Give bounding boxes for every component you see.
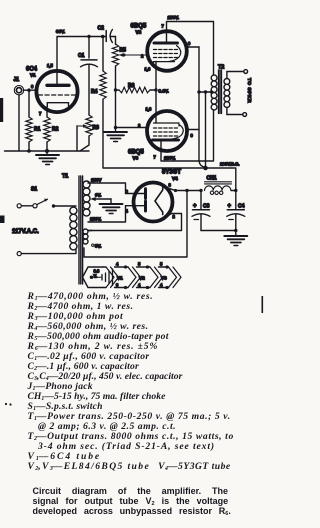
svg-text:2: 2	[141, 54, 144, 59]
node screen/CT junction	[197, 90, 200, 93]
terminal AC bottom	[17, 252, 21, 256]
scan artifact dots	[5, 403, 7, 405]
ground (filter)	[224, 236, 247, 246]
node R4 tap	[101, 35, 105, 39]
wire T1 HV bottom to V4 pin4	[88, 206, 126, 222]
wire J1 to V1 grid	[24, 89, 38, 91]
svg-text:C1: C1	[78, 53, 85, 59]
svg-text:V1: V1	[30, 73, 36, 78]
wire V4 pin2 to 5V winding	[88, 214, 182, 231]
heater chevron 6.3|V1	[106, 267, 119, 288]
switch S1	[17, 187, 55, 208]
svg-text:V.: V.	[94, 274, 98, 279]
heater bus top	[103, 266, 169, 268]
tube V1 6C4	[26, 63, 78, 116]
wire B+ riser	[205, 92, 207, 168]
node CH1 input / C3	[199, 189, 202, 192]
svg-text:V4: V4	[172, 176, 178, 181]
tube V4 5Y3GT	[126, 170, 182, 222]
wire cathode bus V2-V3	[155, 62, 157, 124]
transformer T1	[62, 174, 90, 285]
scan artifact right line	[262, 296, 264, 313]
node R1 ground	[27, 149, 31, 153]
node grid junction pin 6	[27, 88, 31, 92]
wire V3 plate to T2	[161, 110, 214, 161]
svg-text:117V.A.C.: 117V.A.C.	[12, 229, 39, 235]
jack J1	[14, 77, 24, 95]
wire V1 plate to C2 (30V line)	[57, 37, 106, 85]
tube V2 6BQ5	[131, 24, 192, 72]
wire V4 pin8 to B+	[167, 188, 201, 191]
svg-text:9: 9	[188, 41, 191, 46]
svg-text:250V.: 250V.	[164, 156, 176, 161]
svg-text:TO SPKR: TO SPKR	[246, 78, 252, 103]
node cathode bus 9.8V	[154, 88, 157, 91]
svg-text:250V.: 250V.	[168, 15, 180, 20]
resistor R6	[116, 83, 157, 93]
svg-text:T1: T1	[62, 174, 68, 180]
svg-text:4: 4	[116, 262, 119, 267]
tube V3 6BQ5	[128, 107, 194, 161]
node R2 ground	[45, 149, 49, 153]
svg-text:4: 4	[138, 283, 141, 288]
node CH1 output / C4	[234, 189, 237, 192]
svg-text:J1: J1	[14, 77, 20, 83]
svg-text:4: 4	[160, 283, 163, 288]
svg-text:R3: R3	[93, 125, 100, 131]
wire R4 to B+ node	[103, 99, 206, 168]
svg-text:5: 5	[138, 262, 141, 267]
capacitor C4	[227, 204, 245, 231]
resistor R2	[44, 107, 59, 152]
potentiometer R3	[77, 115, 99, 151]
potentiometer R5	[112, 44, 147, 128]
heater bus box 6.3V cell	[83, 267, 113, 288]
wire J1 shell to ground bus	[18, 95, 20, 151]
svg-text:7: 7	[162, 24, 165, 29]
resistor R4	[91, 37, 106, 100]
svg-text:C4: C4	[238, 204, 245, 210]
svg-text:0V.: 0V.	[95, 193, 101, 198]
svg-text:1,3: 1,3	[146, 107, 152, 112]
ground (R5 bottom)	[104, 132, 127, 142]
wire AC bottom to T1 primary	[21, 250, 76, 254]
node R6 left	[114, 88, 117, 91]
svg-text:8: 8	[169, 183, 172, 188]
wire B+ to CH1 output	[206, 168, 236, 210]
wire V2 screen pin9	[186, 46, 199, 48]
ground (T1 center tap)	[100, 204, 123, 214]
wire V3 grid	[116, 127, 148, 129]
wire V2 plate to T2	[167, 22, 214, 76]
wire 5V return	[84, 191, 187, 258]
svg-text:1,3: 1,3	[145, 67, 151, 72]
wire 5V winding top	[88, 230, 92, 232]
wire T1 center tap	[95, 198, 111, 200]
svg-text:6: 6	[31, 84, 34, 89]
ground bus	[5, 150, 90, 152]
svg-text:9: 9	[191, 133, 194, 138]
svg-text:R5: R5	[120, 48, 127, 54]
svg-text:2: 2	[173, 214, 176, 219]
capacitor C3	[192, 191, 210, 231]
svg-text:250V.: 250V.	[90, 217, 101, 222]
wire T1 HV top to V4 pin6	[88, 183, 126, 194]
svg-text:V2: V2	[139, 276, 145, 281]
svg-text:+: +	[228, 204, 232, 210]
node C4 ground	[234, 229, 237, 232]
resistor R1	[26, 90, 41, 151]
svg-text:C3: C3	[203, 204, 210, 210]
heater bus bottom	[103, 287, 169, 289]
scan artifact left bar	[0, 98, 3, 122]
svg-text:R1: R1	[34, 127, 41, 133]
wire V3 screen pin9	[187, 129, 200, 131]
svg-text:V1: V1	[117, 276, 123, 281]
node V3 grid tap	[114, 126, 117, 129]
heater chevron V3 end	[169, 267, 182, 288]
wire S1 to T1 primary	[54, 205, 77, 207]
svg-text:R2: R2	[52, 127, 59, 133]
svg-text:V2: V2	[136, 30, 142, 35]
node 5V return tap	[185, 189, 188, 192]
svg-text:5V.: 5V.	[95, 244, 101, 249]
svg-text:5: 5	[160, 262, 163, 267]
svg-text:7: 7	[154, 155, 157, 160]
svg-text:+: +	[193, 204, 197, 210]
svg-text:250V: 250V	[91, 178, 102, 183]
wire screen bus	[199, 47, 206, 168]
svg-text:1,5: 1,5	[47, 63, 53, 68]
heater chevron V1|V2	[128, 267, 141, 288]
ground (input stage)	[36, 155, 59, 165]
capacitor C2	[98, 26, 116, 45]
wire T2 secondary to speaker	[227, 72, 244, 79]
svg-text:CH1: CH1	[207, 176, 217, 182]
svg-text:30V.: 30V.	[56, 29, 65, 34]
terminal spkr top	[244, 70, 248, 74]
svg-text:V3: V3	[161, 276, 167, 281]
scan artifact left square	[0, 216, 5, 224]
choke CH1	[205, 176, 236, 195]
heater nodes	[124, 265, 127, 268]
transformer T2	[211, 65, 230, 114]
svg-text:260V.D.C.: 260V.D.C.	[220, 162, 239, 167]
label 5V winding	[92, 244, 94, 246]
svg-text:S1: S1	[31, 187, 37, 193]
svg-text:7: 7	[39, 111, 42, 116]
terminal spkr bottom	[243, 113, 247, 117]
svg-text:5Y3GT: 5Y3GT	[162, 170, 181, 176]
svg-text:V3: V3	[133, 156, 139, 161]
svg-text:3: 3	[116, 283, 119, 288]
capacitor C1	[78, 37, 98, 116]
wire C3/C4 bottom rail	[201, 230, 236, 232]
svg-text:R4: R4	[91, 89, 98, 95]
wire T2 center tap	[199, 91, 213, 93]
svg-text:C2: C2	[98, 26, 105, 32]
node C1 tap	[87, 35, 90, 38]
heater chevron V2|V3	[150, 267, 163, 288]
node B+	[203, 166, 208, 171]
svg-text:9.8V.: 9.8V.	[159, 88, 169, 93]
